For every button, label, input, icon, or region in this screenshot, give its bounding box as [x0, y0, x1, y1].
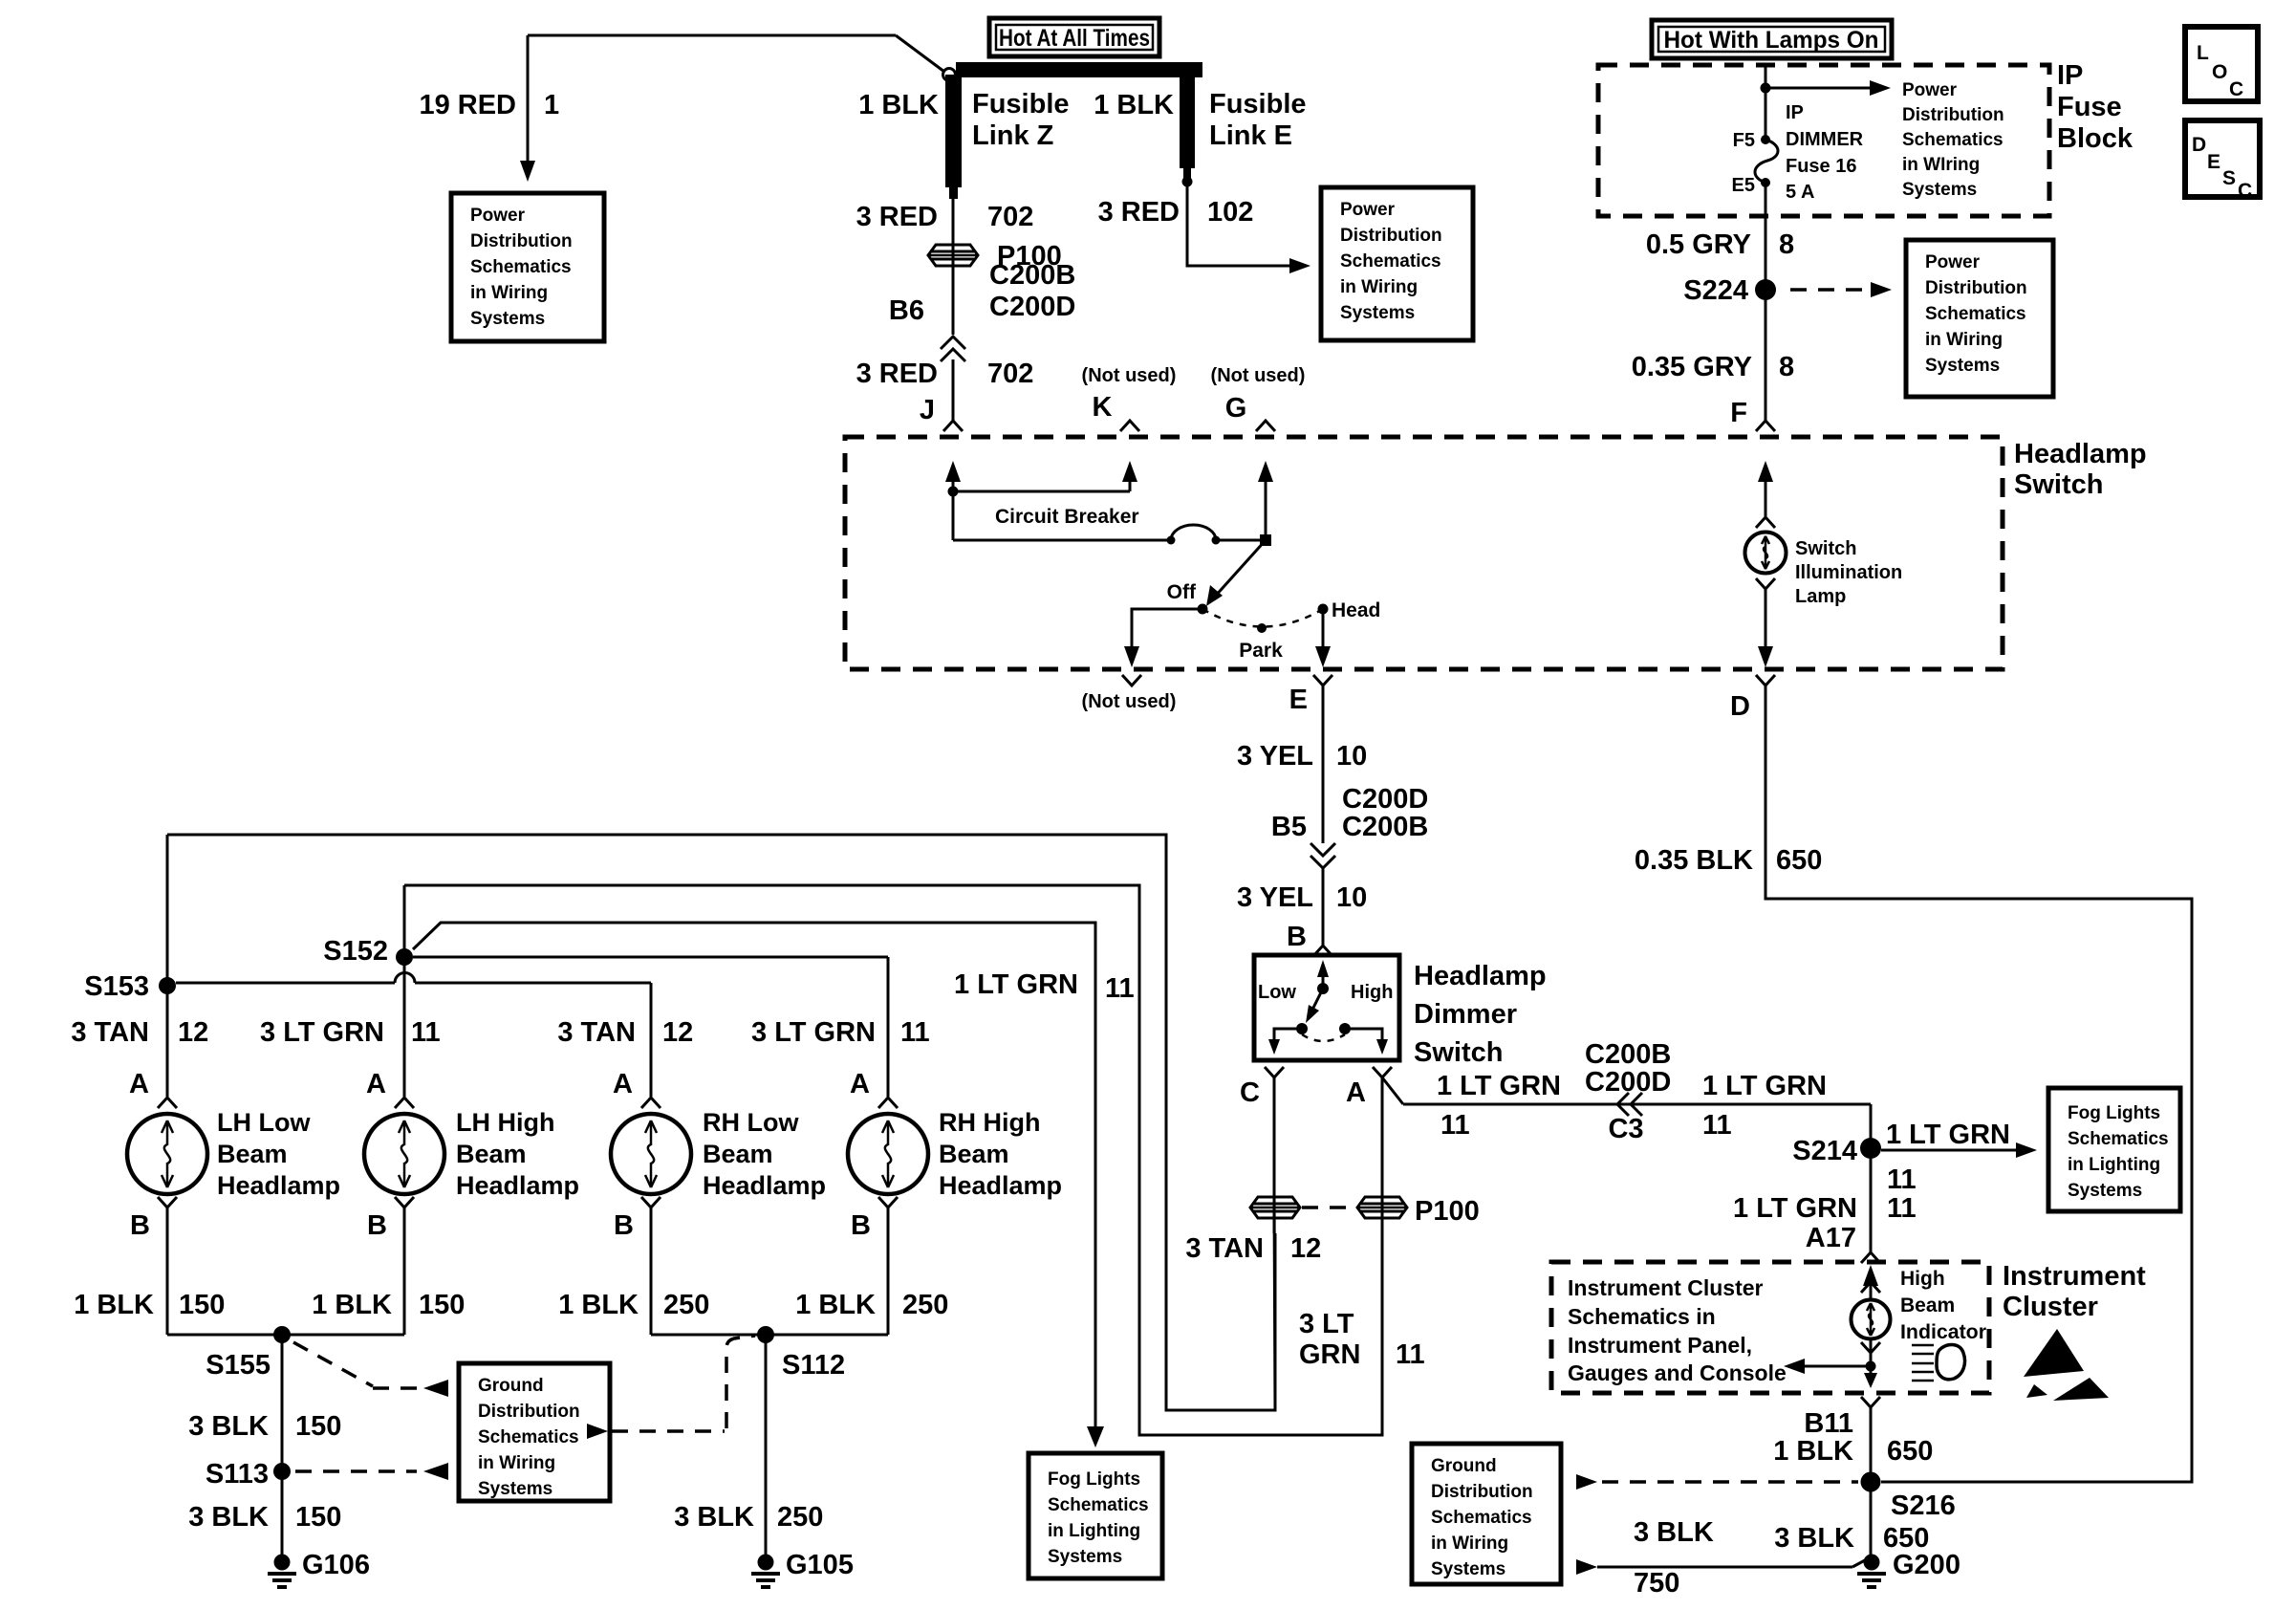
- svg-text:(Not used): (Not used): [1082, 691, 1177, 712]
- svg-text:B: B: [130, 1210, 150, 1241]
- svg-text:S112: S112: [782, 1350, 845, 1381]
- dimmer wiper arm to Low: [1313, 989, 1323, 1008]
- svg-text:S155: S155: [206, 1350, 271, 1381]
- svg-text:0.35 GRY: 0.35 GRY: [1632, 352, 1752, 382]
- lamp terminal chevron above illumination lamp: [1756, 517, 1775, 528]
- svg-text:Beam: Beam: [217, 1140, 288, 1168]
- svg-text:GRN: GRN: [1299, 1339, 1360, 1370]
- svg-text:in Lighting: in Lighting: [2068, 1155, 2160, 1175]
- svg-text:Off: Off: [1167, 581, 1197, 603]
- splice S216: [1861, 1472, 1881, 1492]
- svg-text:A: A: [613, 1069, 633, 1099]
- svg-text:Fog Lights: Fog Lights: [1048, 1469, 1140, 1490]
- svg-text:LH High: LH High: [456, 1108, 554, 1137]
- terminal chevron K: [1120, 421, 1139, 431]
- wire fuse output: [1765, 183, 1767, 421]
- lamp RH Low Beam Headlamp: [611, 1114, 691, 1194]
- svg-text:A: A: [1346, 1077, 1366, 1108]
- svg-text:C200D: C200D: [989, 292, 1075, 322]
- svg-text:Link Z: Link Z: [972, 120, 1053, 151]
- svg-text:Fusible: Fusible: [972, 89, 1070, 120]
- svg-text:C200B: C200B: [1585, 1039, 1671, 1070]
- terminal chevron J: [943, 421, 963, 431]
- terminal chevron A (RH High): [878, 1098, 898, 1108]
- svg-text:A17: A17: [1806, 1223, 1856, 1253]
- wire 3 BLK 250 S112 to G105: [765, 1335, 768, 1562]
- svg-text:Systems: Systems: [1431, 1559, 1505, 1579]
- svg-text:G200: G200: [1893, 1550, 1960, 1580]
- svg-text:1 LT GRN: 1 LT GRN: [1702, 1071, 1827, 1101]
- svg-text:1 BLK: 1 BLK: [1094, 90, 1174, 120]
- terminal chevron below (not used): [1122, 675, 1141, 685]
- svg-text:Dimmer: Dimmer: [1414, 999, 1517, 1030]
- svg-text:702: 702: [987, 202, 1033, 232]
- contact High: [1339, 1023, 1351, 1034]
- svg-text:D: D: [2192, 134, 2206, 156]
- terminal chevron F: [1756, 421, 1775, 431]
- svg-text:B: B: [367, 1210, 387, 1241]
- component box IP Fuse Block (dashed): [1598, 65, 2049, 216]
- svg-text:Indicator: Indicator: [1900, 1321, 1986, 1343]
- dashed arrow ground box to S112: [587, 1424, 608, 1439]
- component box Headlamp Switch (dashed): [845, 437, 2003, 669]
- wire B drop (RH High): [887, 1207, 890, 1335]
- svg-text:in Wiring: in Wiring: [1431, 1534, 1508, 1554]
- splice S153: [159, 977, 176, 994]
- svg-text:Headlamp: Headlamp: [1414, 961, 1547, 991]
- svg-text:8: 8: [1779, 352, 1794, 382]
- svg-text:S: S: [2222, 167, 2236, 189]
- svg-text:J: J: [920, 395, 935, 425]
- svg-text:Headlamp: Headlamp: [2014, 439, 2147, 469]
- wire LH lamps ground bus: [167, 1334, 404, 1337]
- svg-text:Distribution: Distribution: [1431, 1482, 1533, 1502]
- svg-text:F: F: [1730, 398, 1747, 428]
- wire S152 horizontal to RH high: [413, 956, 888, 959]
- svg-text:C200B: C200B: [989, 260, 1075, 291]
- svg-text:Fuse 16: Fuse 16: [1786, 156, 1856, 177]
- svg-text:1 LT GRN: 1 LT GRN: [1437, 1071, 1561, 1101]
- svg-text:C: C: [2238, 180, 2252, 202]
- svg-text:in Wiring: in Wiring: [1340, 277, 1418, 297]
- wire Off to not-used arrow: [1132, 609, 1202, 648]
- svg-text:Distribution: Distribution: [1902, 105, 2004, 125]
- wire 3 YEL 10 lower: [1322, 868, 1325, 945]
- wire A output through P100: [1381, 1077, 1384, 1435]
- splice S224: [1755, 279, 1776, 300]
- svg-text:in WIring: in WIring: [1902, 155, 1980, 175]
- lamp LH High Beam Headlamp: [364, 1114, 444, 1194]
- svg-text:Link E: Link E: [1209, 120, 1292, 151]
- svg-text:Ground: Ground: [1431, 1456, 1497, 1476]
- ground G105: [758, 1555, 774, 1571]
- wire 3 YEL 10 upper: [1322, 685, 1325, 843]
- contact Park: [1257, 623, 1267, 633]
- terminal chevron E: [1313, 675, 1332, 685]
- svg-text:11: 11: [1396, 1339, 1425, 1370]
- terminal chevron A: [1373, 1067, 1392, 1077]
- svg-text:C200D: C200D: [1585, 1067, 1671, 1098]
- svg-text:Schematics: Schematics: [478, 1427, 579, 1447]
- svg-text:0.35 BLK: 0.35 BLK: [1635, 845, 1753, 876]
- svg-text:Illumination: Illumination: [1795, 562, 1902, 583]
- symbol box LOC: [2185, 27, 2258, 101]
- svg-text:High: High: [1900, 1268, 1945, 1290]
- svg-text:in Wiring: in Wiring: [478, 1453, 555, 1473]
- lamp RH High Beam Headlamp: [848, 1114, 928, 1194]
- wire arrow to power distribution text: [1765, 87, 1874, 90]
- junction inside fuse block: [1761, 83, 1771, 94]
- wire RH lamps ground bus: [651, 1334, 888, 1337]
- svg-text:Switch: Switch: [1795, 538, 1856, 559]
- svg-text:12: 12: [662, 1017, 693, 1048]
- reference box Power Distribution Schematics in Wiring Systems (left): [451, 193, 604, 341]
- svg-text:11: 11: [411, 1017, 441, 1048]
- junction below link E: [1182, 177, 1193, 187]
- terminal chevron B (RH Low): [641, 1197, 661, 1207]
- svg-text:S153: S153: [84, 971, 149, 1002]
- svg-text:Beam: Beam: [1900, 1295, 1955, 1316]
- terminal chevron B: [1313, 946, 1332, 956]
- svg-text:12: 12: [1290, 1233, 1321, 1264]
- wire G output arrow inside switch: [1265, 480, 1267, 540]
- svg-text:3 BLK: 3 BLK: [1634, 1517, 1714, 1548]
- svg-text:(Not used): (Not used): [1082, 365, 1177, 386]
- dashed link between P100 halves: [1302, 1206, 1355, 1209]
- wire B drop (LH Low): [166, 1207, 169, 1335]
- svg-text:3 LT GRN: 3 LT GRN: [260, 1017, 384, 1048]
- svg-text:3 RED: 3 RED: [856, 359, 938, 389]
- terminal chevron G: [1256, 421, 1275, 431]
- wire Head to E terminal: [1322, 609, 1325, 648]
- label box Hot At All Times: [989, 18, 1159, 56]
- wire 3 TAN 12 low-beam feed (C riser): [167, 835, 1275, 1410]
- svg-text:Distribution: Distribution: [1925, 278, 2027, 298]
- terminal chevron A (LH Low): [158, 1098, 177, 1108]
- svg-text:5 A: 5 A: [1786, 182, 1814, 203]
- svg-text:G105: G105: [786, 1550, 854, 1580]
- svg-text:650: 650: [1887, 1436, 1933, 1467]
- svg-text:Instrument Cluster: Instrument Cluster: [1568, 1275, 1764, 1300]
- wire 3 RED 102 from link E to box: [1187, 182, 1292, 266]
- svg-text:Ground: Ground: [478, 1376, 544, 1396]
- wire corner down to S214: [1870, 1104, 1873, 1252]
- terminal chevron B (RH High): [878, 1197, 898, 1207]
- wire S152 vertical: [403, 885, 406, 1097]
- svg-text:Schematics: Schematics: [470, 257, 572, 277]
- reference box Ground Distribution Schematics in Wiring Systems (left): [459, 1363, 610, 1501]
- connector C200 double chevron (B5): [1310, 856, 1335, 868]
- svg-text:E: E: [2207, 151, 2220, 173]
- wire to K arrow inside switch: [953, 490, 1130, 493]
- wire F input arrow inside switch: [1765, 480, 1767, 516]
- wire C output to P100: [1273, 1077, 1276, 1233]
- splice S155: [273, 1326, 291, 1343]
- svg-text:B11: B11: [1804, 1408, 1853, 1439]
- svg-text:250: 250: [663, 1290, 709, 1320]
- dashed arc Low-High: [1302, 1034, 1345, 1041]
- wire RH low drop: [650, 983, 653, 1097]
- terminal chevron A17: [1861, 1252, 1880, 1263]
- svg-text:3 BLK: 3 BLK: [188, 1502, 269, 1533]
- svg-text:Switch: Switch: [1414, 1037, 1503, 1068]
- fusible link E (thick): [1180, 75, 1195, 168]
- svg-text:10: 10: [1336, 741, 1367, 772]
- svg-text:Systems: Systems: [478, 1479, 552, 1499]
- high beam indicator lamp: [1852, 1300, 1891, 1339]
- svg-text:Fusible: Fusible: [1209, 89, 1307, 120]
- wire 19 RED drop with arrow to Power Distribution box: [527, 35, 530, 161]
- wire lamp to D terminal: [1765, 589, 1767, 648]
- svg-text:Power: Power: [1925, 252, 1981, 272]
- svg-text:Power: Power: [1902, 80, 1958, 100]
- svg-text:150: 150: [179, 1290, 225, 1320]
- svg-text:3 TAN: 3 TAN: [1185, 1233, 1264, 1264]
- svg-text:Schematics: Schematics: [1925, 304, 2026, 324]
- svg-text:Fog Lights: Fog Lights: [2068, 1103, 2160, 1123]
- svg-text:Park: Park: [1239, 640, 1283, 662]
- switch arm wiper to Off: [1214, 540, 1266, 598]
- wire RH high drop: [887, 957, 890, 1097]
- svg-text:3 BLK: 3 BLK: [1774, 1523, 1854, 1554]
- svg-text:1 LT GRN: 1 LT GRN: [1886, 1120, 2010, 1150]
- svg-text:1 BLK: 1 BLK: [558, 1290, 639, 1320]
- svg-text:0.5 GRY: 0.5 GRY: [1646, 229, 1751, 260]
- svg-text:650: 650: [1776, 845, 1822, 876]
- terminal chevron B11: [1861, 1397, 1880, 1407]
- svg-text:E: E: [1289, 685, 1308, 715]
- wire down to circuit breaker: [952, 491, 955, 540]
- svg-text:3 TAN: 3 TAN: [557, 1017, 636, 1048]
- wire B drop (LH High): [403, 1207, 406, 1335]
- svg-text:S152: S152: [323, 936, 388, 967]
- svg-text:RH Low: RH Low: [703, 1108, 799, 1137]
- svg-text:3 YEL: 3 YEL: [1237, 882, 1313, 913]
- terminal chevron A (RH Low): [641, 1098, 661, 1108]
- svg-text:Headlamp: Headlamp: [703, 1171, 826, 1200]
- wire 3 TAN 12 below P100: [1274, 1197, 1275, 1410]
- wire B drop (RH Low): [650, 1207, 653, 1335]
- connector P100 (A wire): [1357, 1197, 1407, 1218]
- svg-text:S214: S214: [1792, 1136, 1857, 1166]
- wire 3 LT GRN 11 high-beam feed (A riser): [404, 885, 1382, 1435]
- junction at G leg: [1260, 534, 1271, 546]
- dashed arrow S155 to ground box: [293, 1342, 417, 1388]
- svg-text:Beam: Beam: [939, 1140, 1009, 1168]
- svg-text:150: 150: [419, 1290, 465, 1320]
- svg-text:C: C: [2229, 78, 2243, 100]
- wire S153 horizontal with hop to RH low: [176, 982, 395, 985]
- chevron below high beam lamp: [1861, 1342, 1880, 1353]
- svg-text:C200D: C200D: [1342, 784, 1428, 815]
- svg-text:3 YEL: 3 YEL: [1237, 741, 1313, 772]
- svg-text:B: B: [614, 1210, 634, 1241]
- svg-text:Systems: Systems: [470, 309, 545, 329]
- lamp LH Low Beam Headlamp: [127, 1114, 207, 1194]
- svg-text:Headlamp: Headlamp: [456, 1171, 579, 1200]
- component box Headlamp Dimmer Switch: [1254, 955, 1399, 1060]
- svg-text:3 LT GRN: 3 LT GRN: [751, 1017, 876, 1048]
- wire breaker to G junction: [1216, 539, 1266, 542]
- svg-text:B5: B5: [1271, 812, 1307, 842]
- junction J branch: [948, 487, 959, 497]
- high beam icon: [1912, 1344, 1934, 1347]
- svg-text:1 BLK: 1 BLK: [312, 1290, 392, 1320]
- svg-text:3 RED: 3 RED: [1098, 197, 1180, 228]
- fusible link Z (thick): [945, 75, 962, 187]
- svg-text:Cluster: Cluster: [2003, 1292, 2098, 1322]
- svg-text:3 BLK: 3 BLK: [188, 1411, 269, 1442]
- power bus Hot At All Times bar: [956, 62, 1202, 77]
- svg-text:Hot At All Times: Hot At All Times: [999, 25, 1150, 52]
- svg-text:B: B: [1287, 922, 1307, 952]
- svg-text:1 BLK: 1 BLK: [1773, 1436, 1853, 1467]
- svg-text:Fuse: Fuse: [2057, 92, 2122, 122]
- svg-text:F5: F5: [1733, 130, 1755, 151]
- svg-text:11: 11: [1105, 973, 1135, 1004]
- svg-text:Headlamp: Headlamp: [217, 1171, 340, 1200]
- svg-text:Beam: Beam: [703, 1140, 773, 1168]
- svg-text:in Wiring: in Wiring: [1925, 330, 2003, 350]
- ground G200: [1864, 1555, 1880, 1571]
- svg-text:1: 1: [544, 90, 559, 120]
- svg-text:Instrument Panel,: Instrument Panel,: [1568, 1333, 1752, 1358]
- wire A17 into cluster: [1870, 1281, 1873, 1299]
- node open circle at fusible link tap: [943, 69, 956, 81]
- svg-text:1 LT GRN: 1 LT GRN: [1733, 1193, 1857, 1224]
- arrow down to cluster edge: [1864, 1373, 1877, 1388]
- svg-text:Schematics: Schematics: [1340, 251, 1441, 272]
- terminal chevron A (LH High): [395, 1098, 414, 1108]
- ground G106: [274, 1555, 291, 1571]
- svg-text:O: O: [2212, 61, 2227, 83]
- reference box Fog Lights Schematics in Lighting Systems (bottom): [1029, 1453, 1162, 1578]
- svg-text:12: 12: [178, 1017, 208, 1048]
- reference box Power Distribution Schematics in Wiring Systems (right): [1906, 240, 2053, 397]
- svg-text:K: K: [1093, 392, 1113, 423]
- svg-text:11: 11: [1440, 1110, 1470, 1141]
- svg-text:11: 11: [1702, 1110, 1732, 1141]
- component box Instrument Cluster (dashed): [1551, 1262, 1989, 1393]
- svg-text:8: 8: [1779, 229, 1794, 260]
- wire 3 RED 702 lower segment: [952, 359, 955, 421]
- svg-text:B6: B6: [889, 295, 924, 326]
- fuse F5-E5 IP DIMMER Fuse 16 5A: [1761, 135, 1770, 144]
- wire lamp to junction: [1870, 1338, 1873, 1383]
- svg-text:250: 250: [777, 1502, 823, 1533]
- lamp chevron below: [1756, 578, 1775, 589]
- svg-text:Power: Power: [1340, 200, 1396, 220]
- label box Hot With Lamps On: [1652, 20, 1892, 58]
- svg-text:Schematics: Schematics: [2068, 1129, 2169, 1149]
- svg-text:in Lighting: in Lighting: [1048, 1521, 1140, 1541]
- svg-text:3 LT: 3 LT: [1299, 1309, 1354, 1339]
- svg-text:250: 250: [902, 1290, 948, 1320]
- svg-text:3 TAN: 3 TAN: [71, 1017, 149, 1048]
- wire 3 BLK 150 S155 to G106: [281, 1335, 284, 1562]
- reference box Ground Distribution Schematics in Wiring Systems (right): [1412, 1444, 1561, 1584]
- wire 3 BLK 750 to G200: [1576, 1559, 1597, 1575]
- contact Head: [1318, 604, 1329, 615]
- svg-text:(Not used): (Not used): [1211, 365, 1306, 386]
- svg-text:in Wiring: in Wiring: [470, 283, 548, 303]
- svg-text:D: D: [1730, 691, 1750, 722]
- splice S112: [757, 1326, 774, 1343]
- svg-text:G106: G106: [302, 1550, 370, 1580]
- svg-text:11: 11: [1887, 1193, 1917, 1224]
- terminal chevron C: [1265, 1067, 1284, 1077]
- svg-text:Systems: Systems: [1048, 1547, 1122, 1567]
- svg-text:Low: Low: [1258, 982, 1296, 1003]
- svg-text:A: A: [129, 1069, 149, 1099]
- contact Off: [1198, 604, 1208, 615]
- svg-text:Lamp: Lamp: [1795, 586, 1846, 607]
- svg-text:150: 150: [295, 1502, 341, 1533]
- svg-text:RH High: RH High: [939, 1108, 1040, 1137]
- wire arrow left to Gauges and Console: [1805, 1365, 1871, 1368]
- switch illumination lamp: [1745, 533, 1787, 574]
- svg-text:Schematics: Schematics: [1048, 1495, 1149, 1515]
- splice S113: [273, 1463, 291, 1480]
- wire J input arrow inside switch: [952, 480, 955, 491]
- svg-text:C: C: [1240, 1077, 1260, 1108]
- svg-text:1 BLK: 1 BLK: [74, 1290, 154, 1320]
- svg-text:Power: Power: [470, 206, 526, 226]
- svg-text:Circuit Breaker: Circuit Breaker: [995, 506, 1139, 528]
- dashed arrow ground box to S216: [1576, 1474, 1597, 1490]
- svg-text:102: 102: [1207, 197, 1253, 228]
- circuit breaker symbol: [1167, 536, 1176, 545]
- svg-text:S216: S216: [1891, 1490, 1956, 1521]
- svg-text:IP: IP: [2057, 60, 2083, 91]
- svg-text:E5: E5: [1732, 175, 1755, 196]
- splice S152: [396, 948, 413, 966]
- connector P100 (C wire): [1250, 1197, 1300, 1218]
- svg-text:702: 702: [987, 359, 1033, 389]
- svg-text:A: A: [366, 1069, 386, 1099]
- reference box Fog Lights Schematics in Lighting Systems (right): [2048, 1088, 2180, 1211]
- wire S153 vertical: [166, 835, 169, 1097]
- connector C200 double chevron (B6): [941, 337, 965, 349]
- splice S214: [1860, 1138, 1881, 1159]
- svg-text:G: G: [1225, 393, 1247, 424]
- wire 1 BLK 650 to S216: [1870, 1407, 1873, 1562]
- wire arrow S214 to fog lights box: [1878, 1149, 1881, 1152]
- svg-text:1 BLK: 1 BLK: [858, 90, 939, 120]
- svg-text:11: 11: [900, 1017, 930, 1048]
- svg-text:DIMMER: DIMMER: [1786, 129, 1864, 150]
- svg-text:11: 11: [1887, 1164, 1917, 1195]
- svg-text:Schematics: Schematics: [1902, 130, 2004, 150]
- svg-text:Schematics: Schematics: [1431, 1508, 1532, 1528]
- svg-text:S113: S113: [206, 1459, 269, 1490]
- dashed arrow S113 to ground box: [295, 1469, 417, 1473]
- svg-text:1 BLK: 1 BLK: [795, 1290, 876, 1320]
- svg-text:3 BLK: 3 BLK: [674, 1502, 754, 1533]
- wire 19 RED diagonal to bus: [896, 35, 944, 72]
- svg-text:Headlamp: Headlamp: [939, 1171, 1062, 1200]
- svg-text:Block: Block: [2057, 123, 2134, 154]
- svg-text:1 LT GRN: 1 LT GRN: [954, 969, 1078, 1000]
- svg-text:B: B: [851, 1210, 871, 1241]
- svg-text:750: 750: [1634, 1568, 1679, 1599]
- svg-text:P100: P100: [1415, 1196, 1480, 1227]
- contact Low: [1296, 1023, 1308, 1034]
- svg-text:C200B: C200B: [1342, 812, 1428, 842]
- svg-text:IP: IP: [1786, 102, 1804, 123]
- svg-text:Gauges and Console: Gauges and Console: [1568, 1360, 1787, 1385]
- junction below lamp: [1866, 1361, 1876, 1372]
